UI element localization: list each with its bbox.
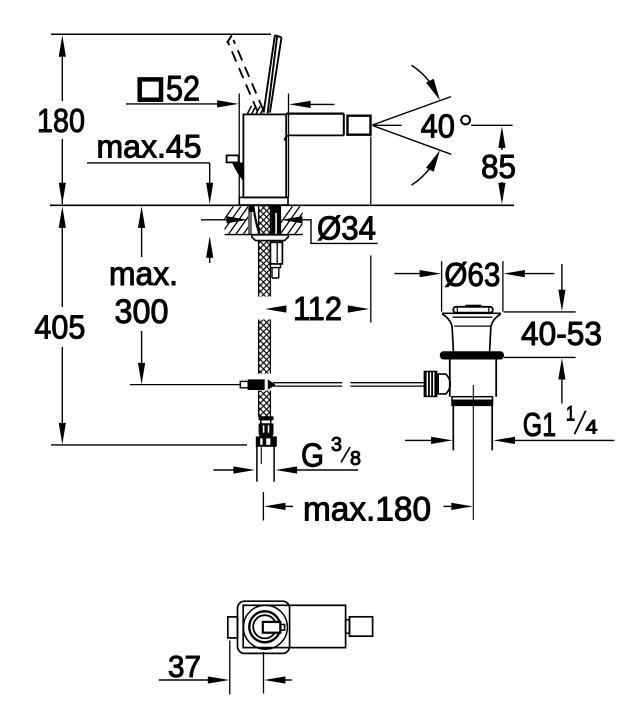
svg-text:52: 52 — [166, 70, 200, 109]
svg-text:405: 405 — [34, 308, 85, 345]
dim 37 ext lines — [229, 641, 231, 695]
top view: lever bar — [263, 622, 281, 633]
svg-text:Ø63: Ø63 — [444, 256, 500, 293]
drain plug raised centre disc — [466, 305, 481, 307]
40-53 arrows — [561, 264, 563, 291]
svg-text:max.45: max.45 — [97, 129, 202, 165]
svg-text:40: 40 — [421, 108, 455, 145]
dia34 arrows — [201, 219, 227, 221]
G3/8 arrows — [214, 469, 234, 471]
spray fan upper line — [373, 97, 452, 125]
mounting bolt bars — [272, 206, 275, 234]
tailpipe — [452, 406, 454, 451]
nut lower part — [272, 268, 279, 278]
bottom reference line (405) — [51, 444, 247, 446]
svg-text:300: 300 — [115, 293, 169, 331]
svg-text:G1: G1 — [523, 406, 556, 443]
svg-text:3: 3 — [331, 434, 342, 456]
drain body — [449, 359, 451, 397]
knob adapter — [438, 374, 450, 394]
washer flange under deck — [252, 235, 288, 241]
svg-text:max.: max. — [109, 255, 178, 292]
dim 405 vertical line — [61, 227, 63, 423]
connector white band — [261, 420, 271, 424]
braided hose segments — [259, 206, 271, 235]
hose ferrule — [259, 417, 273, 420]
svg-text:Ø34: Ø34 — [317, 210, 376, 247]
svg-text:1: 1 — [566, 403, 575, 426]
G3/8 tube — [256, 446, 258, 481]
dia34 leader — [302, 220, 377, 244]
svg-text:G: G — [301, 437, 324, 474]
drain plug cap — [453, 307, 493, 313]
svg-text:112: 112 — [293, 290, 342, 327]
lever handle alternate position (dashed) — [227, 36, 263, 112]
rod double line left part — [273, 382, 342, 384]
max.45 leader underline — [87, 162, 210, 164]
deck hatch right block — [273, 206, 337, 234]
upper arc arrow — [412, 65, 431, 83]
top view: spout tip — [350, 617, 373, 636]
ext line right (base plate right edge) — [288, 94, 290, 198]
aerator tip — [348, 116, 371, 135]
spray fan centre line — [373, 124, 402, 126]
dia63 arrows — [394, 273, 420, 275]
spout — [286, 112, 344, 114]
rod clamp — [240, 381, 248, 387]
hex nut — [256, 437, 276, 446]
drain cone right side — [490, 314, 501, 352]
40-53 bottom ref line — [504, 356, 576, 358]
85 top reference line — [471, 124, 512, 126]
base plate — [239, 197, 288, 205]
shank hole internals — [249, 206, 260, 235]
max180 arrows — [264, 503, 473, 510]
top view: body — [243, 605, 345, 647]
max.45 arrow to deck bottom — [209, 258, 211, 264]
dark band — [260, 434, 273, 437]
svg-text:85: 85 — [481, 148, 516, 185]
lever hinge ticks — [248, 106, 265, 114]
svg-text:40-53: 40-53 — [521, 315, 602, 352]
svg-text:max.180: max.180 — [303, 491, 431, 529]
ext line left (base plate left edge) — [238, 94, 240, 198]
top view: lever escutcheon square — [238, 601, 290, 653]
svg-text:180: 180 — [37, 102, 85, 139]
pop-up knob on body left — [227, 155, 239, 162]
compression nut — [259, 424, 273, 434]
deck section bottom line — [225, 234, 303, 236]
spout tip extension line — [370, 137, 372, 204]
svg-text:8: 8 — [350, 448, 361, 470]
G1-1/4 arrows — [405, 439, 431, 441]
o-ring — [440, 352, 503, 359]
dim max.300 vertical line — [141, 227, 143, 363]
nut step — [270, 264, 280, 268]
spray fan lower line — [373, 126, 452, 155]
top reference line — [51, 33, 271, 35]
knurled knob — [424, 371, 437, 397]
top view: spout step — [346, 620, 350, 633]
top view: cartridge circles — [243, 605, 287, 649]
drain neck joint line — [454, 325, 491, 327]
dim 180 vertical line — [61, 50, 63, 204]
top view: left knob — [228, 617, 238, 638]
lever handle solid — [264, 35, 282, 113]
drain centre line — [472, 385, 474, 520]
drain cone flange top — [442, 312, 501, 314]
svg-text:37: 37 — [168, 649, 201, 684]
rod left thin segment — [130, 384, 240, 386]
max180 left tick — [262, 492, 264, 521]
drain flange underside line — [453, 316, 493, 318]
rod double line right part — [350, 382, 424, 384]
faucet body — [243, 114, 286, 197]
max.45 arrow to deck top — [209, 163, 211, 183]
dim line 52 with arrow — [126, 103, 218, 105]
dim 112 arrows — [265, 305, 369, 312]
mounting nut — [270, 242, 282, 264]
gasket fills at hole top — [250, 206, 254, 211]
drain lower ring — [452, 397, 493, 401]
square symbol of label 52 — [140, 79, 161, 99]
deck hatch left block — [214, 206, 278, 234]
40-53 top ref line — [504, 311, 576, 313]
dia63 ext lines — [441, 261, 443, 311]
37 dim line + arrows — [159, 679, 209, 681]
svg-text:4: 4 — [586, 417, 598, 438]
drain cone left side — [442, 314, 453, 352]
black wedge below knob — [232, 163, 243, 182]
lower arc arrow — [412, 167, 431, 185]
dim 85 vertical — [501, 146, 503, 184]
deck reference line — [50, 204, 514, 206]
